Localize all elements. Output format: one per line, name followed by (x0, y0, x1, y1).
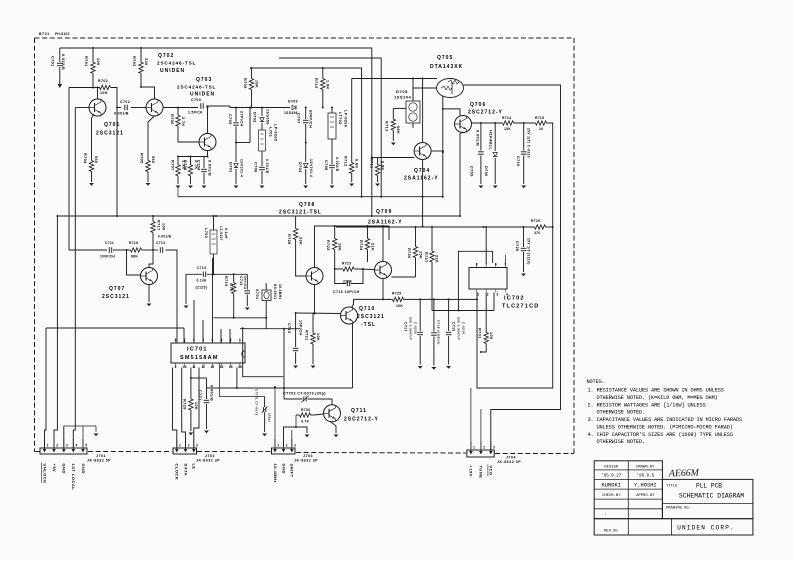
svg-text:J703: J703 (303, 454, 313, 458)
svg-text:50V 0.0047/P: 50V 0.0047/P (457, 317, 461, 340)
svg-text:2SC3121: 2SC3121 (102, 294, 130, 300)
svg-text:-TSL: -TSL (361, 322, 376, 328)
svg-text:B701: B701 (39, 32, 50, 36)
svg-text:R719: R719 (224, 276, 228, 287)
svg-text:Q706: Q706 (470, 102, 486, 108)
svg-text:2SC3121: 2SC3121 (96, 131, 124, 137)
svg-text:R723: R723 (342, 262, 351, 266)
svg-text:3: 3 (196, 444, 198, 448)
svg-text:R709: R709 (243, 78, 247, 89)
svg-text:L703: L703 (204, 228, 208, 238)
svg-text:R725: R725 (392, 292, 401, 296)
svg-text:OTHERWISE NOTED.: OTHERWISE NOTED. (597, 410, 645, 416)
svg-text:C705: C705 (228, 114, 232, 125)
svg-text:+15V: +15V (469, 466, 474, 477)
svg-text:27P/CH: 27P/CH (240, 111, 244, 127)
svg-text:LE: LE (192, 464, 197, 470)
svg-text:SHIFT: SHIFT (290, 464, 295, 478)
svg-text:D705: D705 (396, 89, 408, 94)
svg-text:R724: R724 (359, 240, 363, 251)
svg-text:AE66M: AE66M (668, 467, 700, 479)
svg-text:3: 3 (294, 444, 296, 448)
svg-text:1SV201-4: 1SV201-4 (240, 159, 244, 177)
svg-text:C710: C710 (516, 156, 520, 167)
svg-text:APPRO.BY: APPRO.BY (636, 494, 655, 498)
svg-text:R701: R701 (84, 56, 88, 67)
svg-text:10: 10 (539, 127, 543, 131)
svg-text:18.4MHz: 18.4MHz (278, 284, 282, 300)
svg-text:X701: X701 (255, 289, 259, 299)
svg-text:Q701: Q701 (104, 122, 120, 128)
svg-text:600P/CH: 600P/CH (309, 110, 313, 128)
svg-text:JK-8632 3P: JK-8632 3P (294, 459, 318, 463)
svg-text:1: 1 (47, 444, 49, 448)
svg-text:(20p): (20p) (268, 413, 272, 422)
svg-text:0.001/B: 0.001/B (210, 385, 214, 401)
svg-text:CLOCK: CLOCK (175, 464, 180, 481)
svg-text:2. RESISTOR WATTAGES ARE [1/16: 2. RESISTOR WATTAGES ARE [1/16W] UNLESS (588, 402, 706, 408)
svg-text:'95.9.27: '95.9.27 (601, 474, 622, 479)
svg-text:R726: R726 (407, 248, 411, 259)
svg-text:R728: R728 (287, 234, 291, 245)
svg-text:1ST LOCAL: 1ST LOCAL (71, 464, 76, 491)
svg-text:NOTES.: NOTES. (587, 379, 605, 385)
svg-text:C715: C715 (287, 323, 291, 334)
svg-text:UNIDEN: UNIDEN (190, 92, 215, 98)
svg-text:C706: C706 (254, 162, 258, 173)
svg-text:R707: R707 (171, 160, 175, 171)
svg-text:0.022/B: 0.022/B (335, 157, 339, 172)
svg-text:0.001/B: 0.001/B (114, 112, 129, 116)
svg-text:4.7K: 4.7K (229, 283, 233, 292)
svg-text:SM5158AM: SM5158AM (180, 355, 219, 361)
svg-text:2.7K: 2.7K (181, 117, 185, 127)
svg-text:50V 0.0047/P: 50V 0.0047/P (409, 317, 413, 340)
svg-text:LT702: LT702 (338, 112, 342, 125)
svg-text:DATA: DATA (183, 464, 188, 477)
svg-text:4: 4 (76, 444, 78, 448)
svg-text:2SC2712-Y: 2SC2712-Y (344, 417, 379, 423)
svg-text:2SC3121: 2SC3121 (357, 314, 385, 320)
svg-text:D703: D703 (288, 100, 298, 104)
svg-text:C717: C717 (404, 322, 408, 332)
svg-text:D706: D706 (484, 166, 488, 177)
svg-text:C-0220: C-0220 (414, 322, 418, 334)
svg-text:2SC3121-TSL: 2SC3121-TSL (279, 210, 322, 216)
svg-text:3: 3 (493, 446, 495, 450)
svg-text:C707: C707 (297, 113, 301, 124)
svg-text:C716 10P/CH: C716 10P/CH (333, 290, 360, 294)
svg-text:R715: R715 (535, 116, 544, 120)
svg-text:220K: 220K (343, 280, 353, 284)
svg-text:UNLESS OTHERWISE NOTED. (P=MI: UNLESS OTHERWISE NOTED. (P=MICRO-MICRO F… (597, 424, 733, 430)
svg-text:100: 100 (96, 58, 100, 66)
svg-text:DTA143XK: DTA143XK (430, 64, 463, 70)
svg-text:Q707: Q707 (109, 286, 125, 292)
svg-text:2: 2 (487, 293, 489, 297)
svg-text:UNIDEN: UNIDEN (160, 68, 185, 74)
svg-text:0.001/B: 0.001/B (265, 159, 269, 174)
svg-text:100P/CH: 100P/CH (100, 255, 115, 259)
svg-text:+5V: +5V (52, 464, 57, 473)
svg-text:100: 100 (162, 223, 166, 231)
svg-text:R704: R704 (83, 153, 87, 164)
svg-text:L701: L701 (269, 127, 273, 137)
svg-text:D702: D702 (253, 112, 257, 123)
svg-text:10P/CH: 10P/CH (299, 320, 303, 336)
svg-text:18K: 18K (255, 80, 259, 88)
svg-text:'96.9.5: '96.9.5 (637, 474, 655, 479)
svg-text:C713: C713 (197, 266, 206, 270)
svg-text:R722: R722 (326, 240, 330, 251)
svg-text:C718 (CKB14): C718 (CKB14) (437, 320, 441, 345)
svg-text:3: 3 (66, 444, 68, 448)
svg-text:UNLOCK: UNLOCK (42, 464, 47, 484)
svg-text:Q709: Q709 (376, 209, 392, 215)
svg-text:C709: C709 (470, 166, 474, 177)
svg-text:1SS356: 1SS356 (284, 111, 298, 115)
svg-text:C708: C708 (324, 160, 328, 171)
svg-text:DESIGN: DESIGN (604, 465, 618, 469)
svg-text:BX-0631: BX-0631 (273, 284, 277, 299)
svg-text:6.8K: 6.8K (355, 159, 359, 169)
svg-text:R703: R703 (132, 56, 136, 67)
svg-text:IC701: IC701 (187, 347, 208, 353)
svg-text:R729: R729 (183, 399, 187, 410)
svg-text:0.001/B: 0.001/B (158, 235, 172, 239)
svg-text:100: 100 (489, 332, 493, 340)
svg-text:33K: 33K (299, 237, 303, 245)
svg-text:1SS356: 1SS356 (266, 109, 270, 125)
svg-text:TITLE: TITLE (666, 485, 678, 489)
svg-text:68K: 68K (131, 255, 138, 259)
svg-text:1SS104: 1SS104 (394, 95, 412, 100)
svg-text:CT702 CT-0073 (20p): CT702 CT-0073 (20p) (283, 392, 326, 396)
svg-text:IC702: IC702 (504, 296, 525, 302)
svg-text:LP-0260: LP-0260 (344, 110, 348, 127)
svg-text:J701: J701 (96, 454, 106, 458)
svg-text:R731: R731 (478, 328, 482, 339)
svg-text:REV.No: REV.No (604, 530, 618, 534)
svg-text:Q702: Q702 (158, 53, 174, 59)
svg-text:0.001/B: 0.001/B (208, 160, 212, 176)
svg-text:C714: C714 (239, 276, 243, 286)
svg-text:1: 1 (277, 444, 279, 448)
svg-text:C704: C704 (197, 160, 201, 171)
svg-text:PLL PCB: PLL PCB (696, 483, 722, 490)
svg-text:JK-8632 3P: JK-8632 3P (497, 460, 521, 464)
svg-text:R706: R706 (170, 114, 174, 125)
svg-text:21K: 21K (371, 243, 375, 251)
svg-text:C703: C703 (191, 98, 201, 102)
svg-text:560: 560 (94, 156, 98, 164)
svg-text:15K: 15K (504, 127, 511, 131)
svg-text:2SC4246-TSL: 2SC4246-TSL (157, 61, 196, 66)
svg-text:JK-8632 3P: JK-8632 3P (196, 459, 220, 463)
svg-text:R714: R714 (502, 116, 511, 120)
svg-text:5: 5 (85, 444, 87, 448)
svg-text:68K: 68K (396, 126, 400, 134)
svg-text:2: 2 (286, 444, 288, 448)
svg-text:1. RESISTANCE VALUES ARE SHOWN: 1. RESISTANCE VALUES ARE SHOWN IN OHMS U… (588, 388, 724, 394)
svg-text:Q705: Q705 (437, 55, 453, 61)
svg-text:OTHERWISE NOTED. (K=KILO OHM,: OTHERWISE NOTED. (K=KILO OHM, M=MEG OHM) (597, 395, 718, 401)
svg-text:Q710: Q710 (359, 306, 375, 312)
svg-text:3: 3 (496, 293, 498, 297)
svg-text:10K: 10K (316, 333, 320, 341)
svg-text:10K: 10K (396, 304, 403, 308)
svg-text:10K: 10K (100, 91, 108, 95)
svg-text:R716: R716 (129, 241, 138, 245)
svg-text:C-021P: C-021P (462, 322, 466, 335)
svg-text:TLC271CD: TLC271CD (502, 304, 539, 310)
svg-text:15K: 15K (419, 251, 423, 259)
svg-text:DRAWN.BY: DRAWN.BY (636, 465, 655, 469)
svg-text:0.1uH: 0.1uH (224, 228, 228, 239)
svg-text:C720: C720 (515, 241, 519, 252)
svg-text:R713: R713 (385, 121, 389, 132)
svg-text:TUNE: TUNE (479, 466, 484, 479)
svg-text:Q704: Q704 (414, 168, 430, 174)
svg-text:LZ-0127: LZ-0127 (219, 226, 223, 241)
svg-text:25V 1/6 (3216): 25V 1/6 (3216) (527, 238, 531, 265)
svg-text:GND: GND (281, 464, 286, 474)
svg-text:J704: J704 (506, 456, 516, 460)
svg-text:GND: GND (62, 464, 67, 474)
svg-text:1.8K: 1.8K (326, 80, 330, 90)
svg-text:CHECK.BY: CHECK.BY (602, 494, 621, 498)
svg-text:R717: R717 (157, 220, 161, 231)
svg-text:D701: D701 (229, 162, 233, 173)
svg-text:R711: R711 (370, 158, 374, 168)
svg-text:R730: R730 (301, 408, 310, 412)
svg-text:.: . (604, 512, 607, 517)
svg-text:18K: 18K (338, 243, 342, 251)
svg-text:2SC4246-TSL: 2SC4246-TSL (177, 85, 216, 90)
svg-text:SCHEMATIC DIAGRAM: SCHEMATIC DIAGRAM (679, 493, 744, 500)
svg-text:0.022/B: 0.022/B (61, 54, 65, 70)
svg-text:C701: C701 (51, 56, 55, 67)
svg-text:R708: R708 (183, 160, 187, 171)
svg-text:18.4MHz: 18.4MHz (273, 464, 278, 484)
svg-text:R705: R705 (140, 153, 144, 164)
svg-text:GND: GND (81, 464, 86, 474)
svg-text:J702: J702 (205, 454, 215, 458)
svg-text:OTHERWISE NOTED.: OTHERWISE NOTED. (597, 439, 645, 445)
svg-text:C702: C702 (120, 100, 130, 104)
svg-text:D704: D704 (298, 162, 302, 173)
svg-text:2SA1162-Y: 2SA1162-Y (368, 220, 403, 226)
svg-text:KUROKI: KUROKI (602, 482, 621, 488)
svg-text:330: 330 (144, 58, 148, 66)
svg-text:25V 1(T) C-0320: 25V 1(T) C-0320 (527, 128, 531, 158)
svg-text:0.001/B: 0.001/B (476, 130, 480, 146)
svg-text:1SV201-4: 1SV201-4 (309, 159, 313, 177)
svg-text:470: 470 (534, 231, 541, 235)
svg-text:HZK4BLL: HZK4BLL (489, 130, 493, 150)
svg-text:VCO: VCO (489, 466, 494, 476)
svg-text:2SA1162-Y: 2SA1162-Y (404, 176, 439, 182)
svg-text:PH-8102: PH-8102 (55, 32, 70, 36)
svg-text:3PP/CH: 3PP/CH (243, 276, 247, 289)
svg-text:R721: R721 (305, 330, 309, 341)
svg-text:DRAWING No.: DRAWING No. (666, 507, 691, 511)
svg-text:1: 1 (179, 444, 181, 448)
svg-text:C719: C719 (452, 322, 456, 332)
svg-text:2SC2712-Y: 2SC2712-Y (468, 110, 503, 116)
svg-text:(2125): (2125) (196, 286, 208, 290)
svg-text:2: 2 (56, 444, 58, 448)
svg-text:22K: 22K (435, 255, 439, 263)
svg-text:3. CAPACITANCE VALUES ARE INDI: 3. CAPACITANCE VALUES ARE INDICATED IN M… (588, 417, 742, 423)
svg-text:C711: C711 (105, 241, 114, 245)
svg-text:1: 1 (473, 446, 475, 450)
svg-text:C712: C712 (156, 241, 165, 245)
svg-text:R702: R702 (98, 79, 108, 83)
svg-text:LP-0265: LP-0265 (274, 124, 278, 141)
svg-text:6.8K: 6.8K (381, 161, 385, 171)
svg-text:R710: R710 (314, 78, 318, 89)
svg-text:R720: R720 (531, 219, 540, 223)
svg-text:10K: 10K (194, 402, 198, 410)
svg-text:UNIDEN CORP.: UNIDEN CORP. (677, 525, 735, 532)
svg-text:Q703: Q703 (196, 77, 212, 83)
svg-text:Q708: Q708 (299, 202, 315, 208)
svg-text:1.5P/CK: 1.5P/CK (188, 111, 203, 115)
svg-text:Q711: Q711 (351, 408, 367, 414)
svg-text:JK-8632 5P: JK-8632 5P (87, 459, 111, 463)
svg-text:R727: R727 (424, 252, 428, 263)
svg-text:R712: R712 (344, 156, 348, 167)
svg-text:2: 2 (188, 444, 190, 448)
svg-text:0.1/B: 0.1/B (197, 279, 207, 283)
svg-text:4. CHIP CAPACITOR'S SIZES ARE: 4. CHIP CAPACITOR'S SIZES ARE (1608) TYP… (588, 432, 733, 438)
svg-text:560: 560 (151, 156, 155, 164)
svg-text:4.7K: 4.7K (301, 420, 310, 424)
svg-text:CT701 CT-0073: CT701 CT-0073 (255, 389, 259, 416)
svg-text:Y.HOSHI: Y.HOSHI (634, 482, 657, 488)
svg-text:2: 2 (483, 446, 485, 450)
svg-text:1: 1 (477, 293, 479, 297)
